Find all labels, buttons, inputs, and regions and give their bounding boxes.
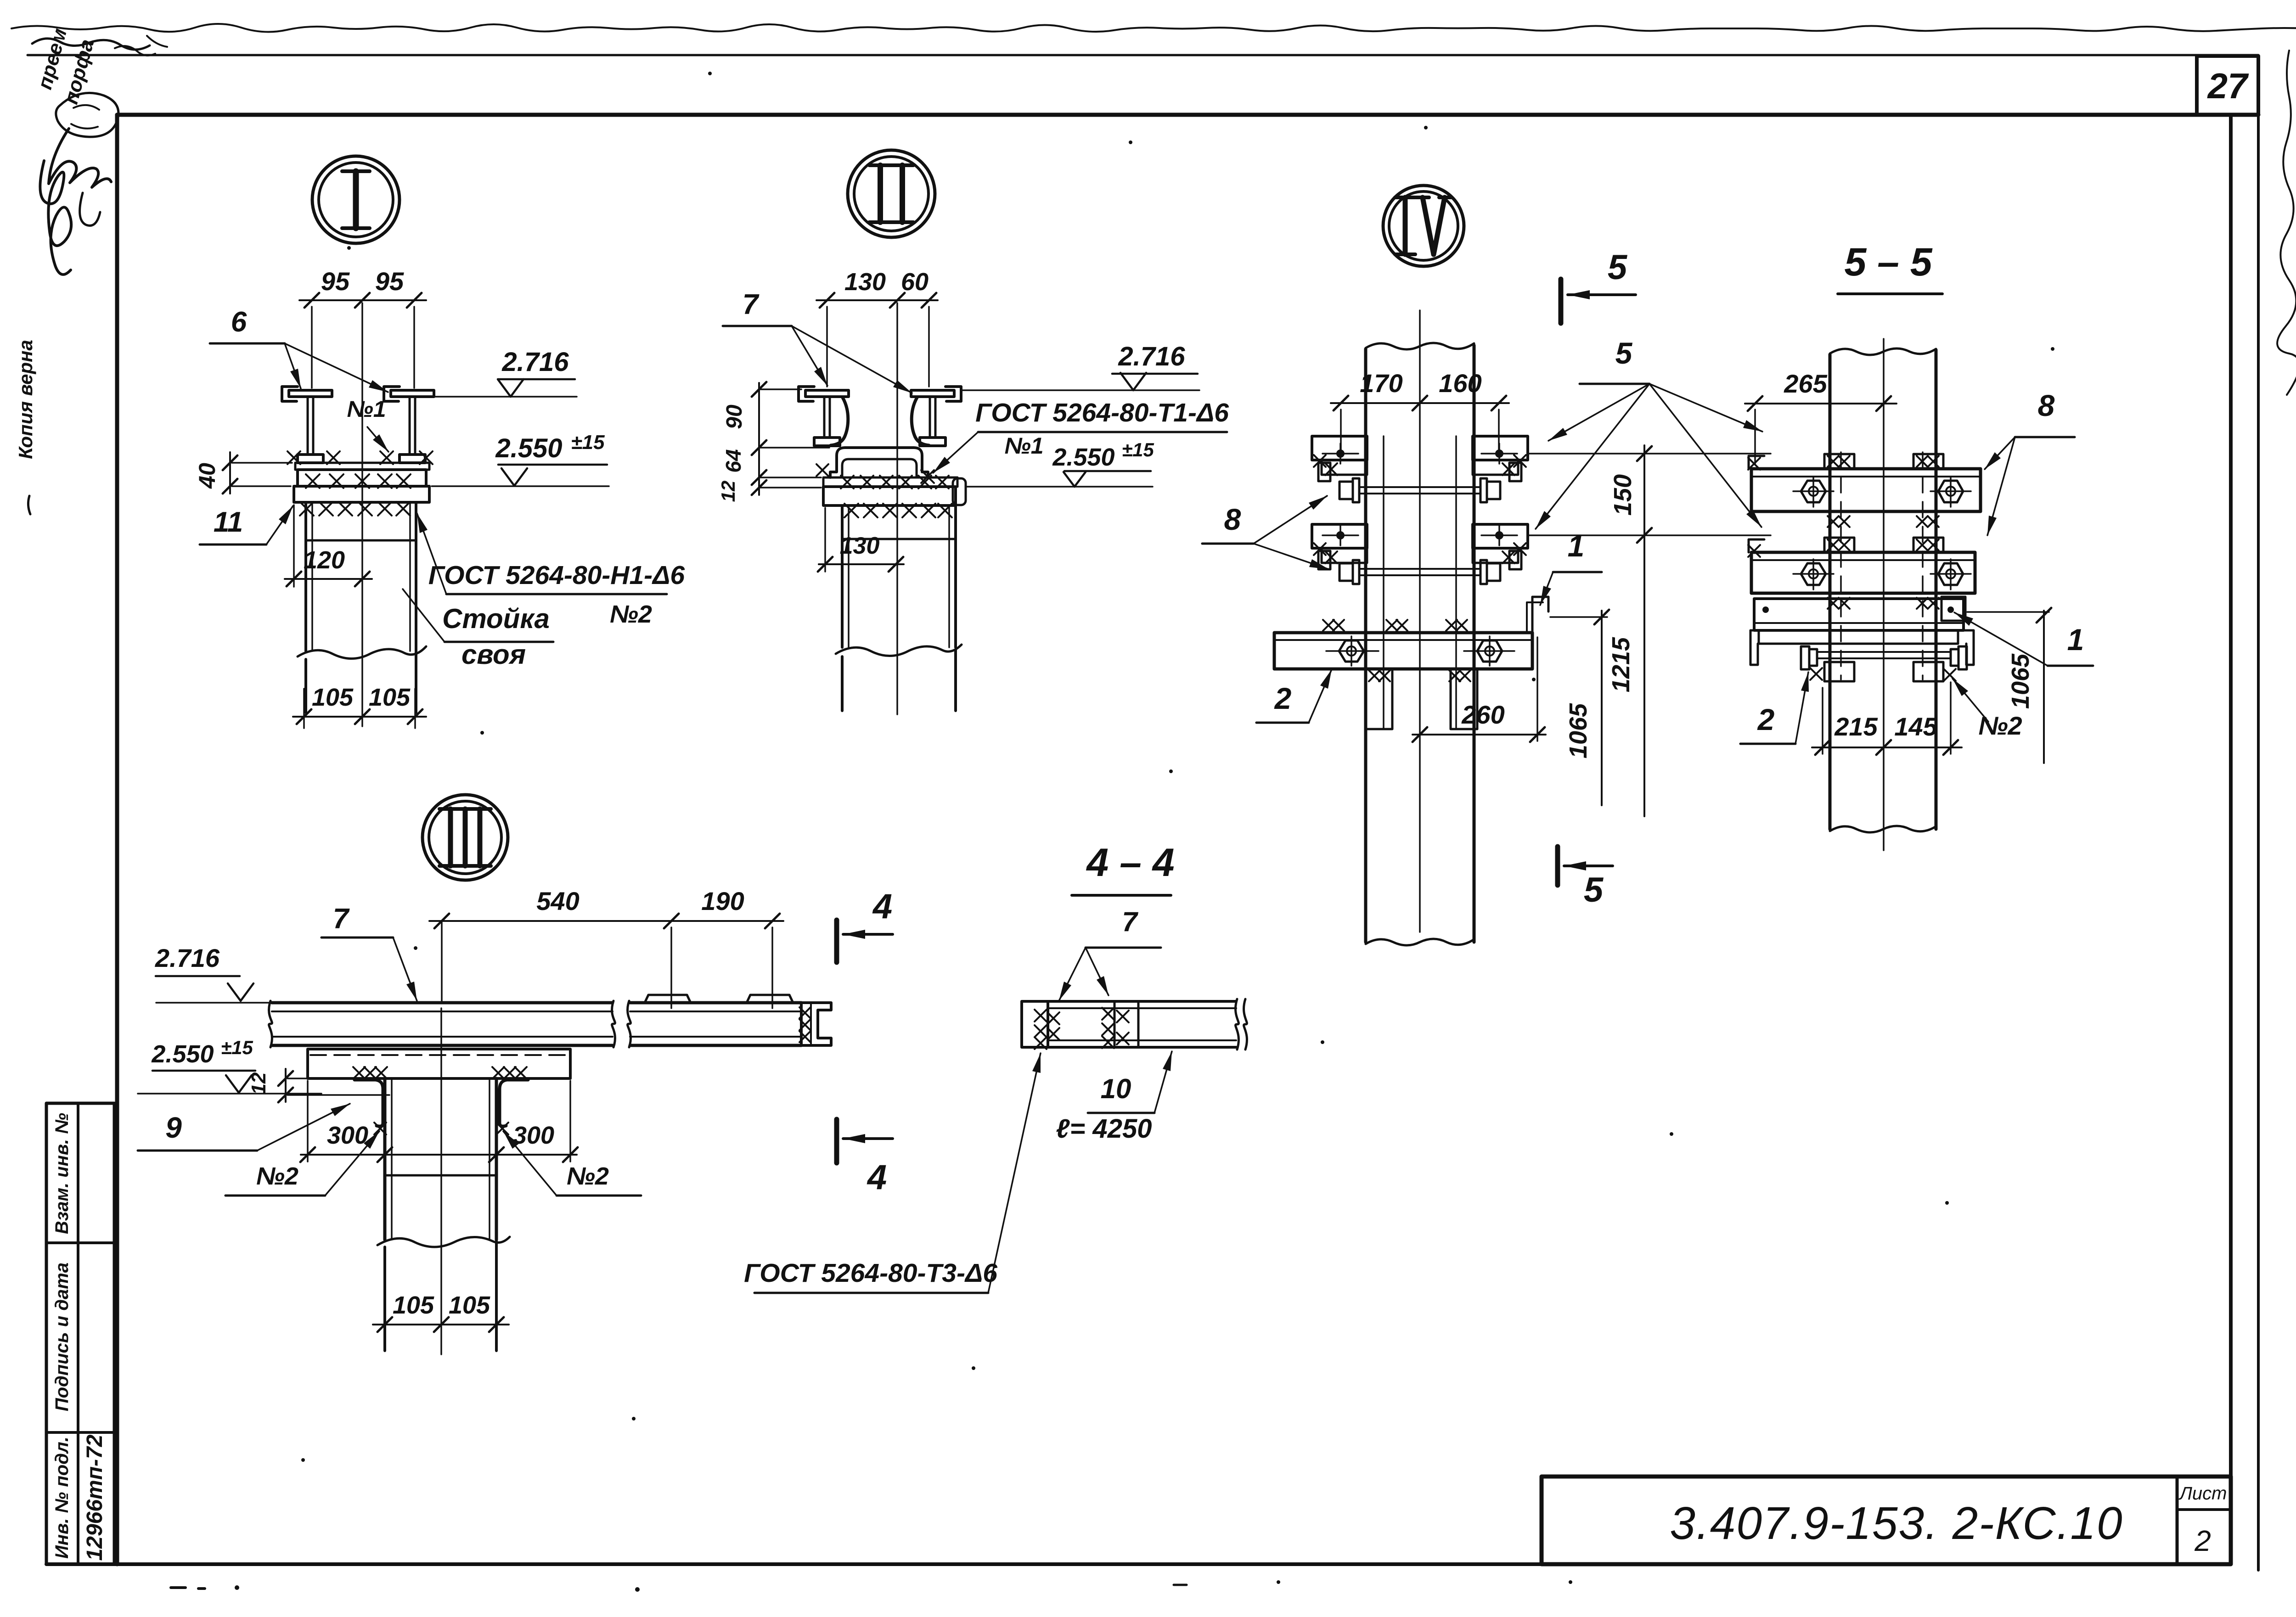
view III beam piece 2 (630, 1001, 801, 1005)
view I dim extension right (413, 307, 415, 388)
view III beam piece 1 left break (269, 1001, 272, 1047)
svg-text:4 – 4: 4 – 4 (1086, 841, 1174, 885)
svg-text:№2: №2 (1978, 711, 2022, 740)
view III dim 105+105 (373, 1324, 509, 1325)
view III weld xxx left (353, 1067, 365, 1079)
frame right border outer (2257, 115, 2260, 1570)
view II column lower edges (841, 657, 844, 711)
weld xx below bar (1828, 516, 1839, 527)
view III beam piece 1 right break (612, 1001, 615, 1047)
view I thin plate (295, 463, 429, 470)
section 4-4 beam inner lines (1048, 1007, 1236, 1009)
svg-text:64: 64 (721, 449, 745, 472)
view IV column left edge (1364, 349, 1367, 942)
view IV dim 150 and 1215 line (1643, 445, 1645, 816)
view II weld x-row under plate (844, 504, 858, 517)
title block list cell split (2177, 1508, 2231, 1511)
view III beam piece 2 left break (628, 1001, 631, 1047)
view III cap plate hidden line (310, 1054, 568, 1056)
svg-text:Инв. № подл.: Инв. № подл. (52, 1437, 72, 1559)
view III weld xxx right (492, 1067, 504, 1079)
view II main plate (823, 487, 956, 505)
section 5-5 end bracket (1941, 597, 1965, 621)
section 5-5 bottom tabs (1824, 662, 1854, 681)
clamp hook plate (1318, 463, 1330, 481)
view III column break wavy (377, 1237, 510, 1247)
section 4-4 weld xs at left joint (1035, 1010, 1047, 1022)
view II column joint line (842, 538, 956, 540)
svg-text:№1: №1 (347, 396, 386, 422)
view II plate end tab (953, 478, 966, 505)
svg-text:2.550: 2.550 (151, 1040, 214, 1068)
view I weld x-row on plate A (306, 474, 320, 488)
svg-text:2.550: 2.550 (495, 433, 562, 463)
view II centerline (896, 303, 898, 714)
clamp weld xs (1314, 543, 1326, 555)
view III left clip angle (355, 1080, 383, 1126)
clamp bar end clip (1749, 456, 1764, 469)
view I column lower right edge (415, 652, 417, 713)
svg-text:260: 260 (1461, 700, 1504, 729)
section 5-5 column bottom wavy (1830, 826, 1936, 832)
svg-text:1065: 1065 (2007, 653, 2034, 709)
view IV column top wavy (1366, 343, 1474, 349)
svg-text:2.550: 2.550 (1052, 444, 1114, 471)
rail web (409, 397, 411, 455)
svg-text:2.716: 2.716 (501, 347, 569, 377)
svg-text:Копия верна: Копия верна (15, 340, 36, 459)
section 5-5 centerline (1883, 339, 1885, 850)
section mark 5 top (1559, 279, 1564, 323)
svg-text:27: 27 (2207, 66, 2249, 106)
svg-text:40: 40 (194, 463, 220, 489)
view IV level extension lines (1529, 453, 1771, 455)
svg-text:120: 120 (304, 546, 345, 574)
svg-text:1: 1 (2067, 623, 2084, 657)
margin ink patches near top (32, 39, 150, 50)
view I dim 40 extensions (232, 462, 292, 464)
section 5-5 dim 215+145 (1812, 747, 1962, 748)
svg-text:170: 170 (1360, 369, 1402, 398)
stamp divider 1 (46, 1241, 114, 1244)
svg-text:95: 95 (375, 267, 404, 296)
view I column inner right (409, 502, 411, 651)
view II column right edge (954, 505, 957, 647)
svg-text:№1: №1 (1004, 433, 1043, 459)
svg-text:Стойка: Стойка (442, 603, 550, 634)
section 5-5 dim 265 (1745, 403, 1896, 404)
weld xx below bar (1828, 598, 1839, 609)
view II circle label (848, 150, 935, 237)
svg-text:7: 7 (743, 289, 760, 320)
tie bolt head (1487, 482, 1500, 499)
clamp bar (1751, 469, 1981, 511)
clamp bar (1751, 552, 1975, 593)
section 5-5 right hook (1958, 630, 1974, 665)
section 5-5 weld xs bottom (1810, 668, 1822, 680)
clamp block (1312, 436, 1367, 460)
section 5-5 weld x marks at bar left ends (1748, 458, 1760, 470)
view II dim 130 extension (824, 508, 826, 572)
svg-text:8: 8 (2038, 388, 2055, 422)
view II column break wavy (836, 645, 962, 656)
svg-text:215: 215 (1834, 712, 1878, 741)
view II dim extensions (826, 307, 828, 387)
svg-text:7: 7 (333, 903, 350, 935)
view II left dim extensions (759, 388, 801, 390)
svg-text:3.407.9-153. 2-КС.10: 3.407.9-153. 2-КС.10 (1670, 1498, 2123, 1549)
section 5-5 beam strip element 1 (1754, 599, 1964, 630)
svg-text:8: 8 (1224, 502, 1241, 536)
margin signature flourish (49, 129, 111, 187)
view III dim 300+300 (301, 1154, 577, 1156)
view I plate A (298, 470, 426, 486)
view I plate B wide (294, 486, 429, 502)
rail clip lip (384, 387, 400, 401)
view IV lower cheek plate left (1366, 669, 1392, 729)
view IV lower cheek plate right (1451, 669, 1477, 729)
svg-text:№2: №2 (567, 1162, 609, 1190)
view I column right edge (415, 502, 417, 651)
tie bolt head (1339, 563, 1353, 581)
view II weld x-row on plate (841, 476, 854, 488)
rail bottom flange (814, 438, 840, 446)
stamp column outer box (46, 1103, 114, 1564)
sheet number box 27 (2197, 56, 2258, 115)
clamp bolt (1336, 449, 1345, 458)
svg-text:2: 2 (1757, 702, 1775, 736)
view IV clamp cheek plate edges (1383, 436, 1384, 729)
view III rail pad tab 2 (747, 995, 793, 1003)
view I dim 105+105 line (293, 716, 426, 718)
view I circle label (312, 156, 400, 243)
svg-text:2.716: 2.716 (155, 943, 220, 972)
svg-text:5: 5 (1584, 870, 1604, 910)
rail web (823, 397, 826, 438)
clamp block step (1473, 548, 1518, 563)
tie bolt shank (1361, 486, 1479, 488)
view II column left edge (841, 505, 844, 647)
view IV weld xx above beam (1323, 620, 1334, 631)
rail clip curl (831, 398, 848, 445)
rail bottom flange (400, 455, 425, 463)
svg-text:1215: 1215 (1607, 637, 1635, 692)
rail clip lip (945, 387, 961, 401)
svg-text:ГОСТ 5264-80-Т1-Δ6: ГОСТ 5264-80-Т1-Δ6 (975, 398, 1229, 427)
view III beam piece 1 (272, 1001, 613, 1005)
section 5-5 lower plate (1759, 630, 1958, 644)
tie bolt head (1339, 482, 1353, 499)
view IV bent stop element 1 (1532, 597, 1548, 633)
section 5-5 bottom tie bolt (1817, 651, 1951, 653)
stamp divider 2 (46, 1431, 114, 1434)
svg-text:2.716: 2.716 (1118, 342, 1185, 371)
view IV column right edge (1473, 345, 1476, 942)
svg-text:190: 190 (701, 887, 744, 915)
view III cap plate (308, 1049, 570, 1078)
clamp block (1473, 436, 1528, 460)
rail clip lip (282, 387, 298, 401)
weld tabs on bar (1824, 538, 1854, 552)
view II thin plate (823, 477, 957, 487)
view I dim 120 line (285, 578, 372, 580)
view III clip weld x left (374, 1123, 386, 1134)
rail clip lip (799, 387, 814, 401)
view III dim 540+190 line (429, 920, 783, 922)
view I column left edge (304, 502, 307, 651)
svg-text:160: 160 (1439, 369, 1481, 398)
svg-text:105: 105 (369, 684, 411, 711)
svg-text:150: 150 (1609, 474, 1637, 516)
rail web (307, 397, 309, 455)
svg-text:145: 145 (1894, 712, 1937, 741)
section 5-5 column right edge (1935, 350, 1938, 829)
frame left border (115, 115, 119, 1564)
tie bolt head (1487, 563, 1500, 581)
svg-text:5: 5 (1615, 336, 1633, 370)
svg-text:1: 1 (1568, 529, 1585, 563)
section 5-5 column left edge (1829, 354, 1832, 829)
svg-text:Лист: Лист (2178, 1483, 2227, 1504)
view I dim 95+95 line (299, 299, 426, 301)
svg-text:10: 10 (1101, 1073, 1131, 1104)
svg-text:12966тп-72: 12966тп-72 (83, 1434, 107, 1561)
section 5-5 left hook (1750, 630, 1766, 665)
svg-text:4: 4 (872, 887, 892, 926)
margin stamp smudge (56, 93, 118, 137)
view IV roman numeral IV (1403, 197, 1408, 254)
section 4-4 joint line 1 (1114, 1001, 1116, 1047)
svg-text:105: 105 (393, 1291, 434, 1319)
svg-text:105: 105 (449, 1291, 490, 1319)
section 4-4 weld xs at right joint (1102, 1008, 1114, 1020)
svg-text:ГОСТ 5264-80-Т3-Δ6: ГОСТ 5264-80-Т3-Δ6 (744, 1258, 997, 1288)
svg-text:ГОСТ 5264-80-Н1-Δ6: ГОСТ 5264-80-Н1-Δ6 (428, 561, 685, 590)
svg-text:2: 2 (2194, 1524, 2211, 1557)
svg-text:№2: №2 (256, 1162, 298, 1190)
torn paper right edge (2277, 51, 2296, 395)
view II roman numeral II (878, 165, 883, 222)
svg-text:6: 6 (231, 306, 247, 338)
view I weld x-row under plate B (300, 502, 314, 516)
view III beam end plate (800, 1003, 803, 1045)
svg-text:7: 7 (1122, 906, 1138, 937)
clamp bar hex bolts (1801, 563, 1826, 585)
clamp bolt (1336, 531, 1345, 539)
section 4-4 joint line 2 (1137, 1001, 1140, 1047)
scan specks (708, 72, 712, 75)
view II weld x at plate left end (816, 464, 828, 476)
clamp block step (1473, 460, 1518, 475)
view IV dim 170+160 (1331, 402, 1509, 404)
rail top flange (289, 390, 332, 397)
view IV dim 260 (1412, 734, 1546, 736)
view III clip weld x right (496, 1123, 508, 1134)
view II dim 130 inner line (819, 563, 904, 565)
frame right border inner (2229, 115, 2233, 1564)
clamp bolt (1495, 449, 1503, 458)
svg-text:5 – 5: 5 – 5 (1844, 240, 1932, 284)
section mark 4 top (834, 920, 839, 962)
view I centerline (361, 303, 363, 726)
view IV beam bolt right (1477, 640, 1502, 662)
view III column joint line (385, 1174, 496, 1177)
section 5-5 column top wavy (1830, 348, 1936, 355)
svg-text:5: 5 (1608, 248, 1628, 287)
view IV beam element 2 (1274, 633, 1532, 669)
rail top flange (911, 390, 954, 397)
view IV circle label (1383, 185, 1464, 266)
svg-text:90: 90 (722, 404, 747, 429)
view I column lower left edge (304, 659, 307, 713)
view I dim 40 vertical (229, 452, 231, 494)
view III dim extensions (441, 921, 443, 1001)
svg-text:12: 12 (248, 1072, 270, 1095)
view II left dim stack 90 64 12 (758, 383, 760, 495)
section 5-5 dim 1065 (2043, 611, 2045, 763)
clamp block (1312, 524, 1367, 548)
rail bottom flange (298, 455, 323, 463)
stamp column divider vertical (77, 1103, 79, 1564)
svg-text:Взам. инв. №: Взам. инв. № (52, 1113, 72, 1234)
svg-text:2: 2 (1274, 681, 1292, 715)
svg-text:12: 12 (717, 481, 739, 502)
view III dim 12 (285, 1069, 287, 1102)
rail bottom flange (920, 438, 945, 446)
svg-text:9: 9 (165, 1111, 182, 1144)
view IV dim 1065 line (1601, 611, 1603, 805)
svg-text:130: 130 (844, 268, 886, 296)
section 4-4 beam bottom edge (1048, 1046, 1236, 1049)
clamp bar end clip (1749, 539, 1764, 552)
torn paper top edge (11, 24, 2296, 32)
clamp hook plate (1509, 463, 1521, 481)
frame bottom border (46, 1562, 2231, 1566)
svg-text:±15: ±15 (571, 431, 605, 454)
clamp weld xs (1314, 455, 1326, 467)
svg-text:300: 300 (513, 1122, 554, 1149)
view I dim ticks (304, 293, 319, 308)
view III roman numeral III (448, 809, 453, 866)
svg-text:540: 540 (536, 887, 579, 915)
title block box (1542, 1477, 2231, 1564)
svg-text:±15: ±15 (221, 1037, 253, 1058)
view III column lower edges (383, 1247, 386, 1351)
top band line (28, 54, 2258, 56)
weld tabs on bar (1824, 454, 1854, 469)
svg-text:105: 105 (312, 684, 354, 711)
clamp block (1473, 524, 1528, 548)
section mark 4 bottom (834, 1119, 839, 1163)
svg-text:265: 265 (1784, 369, 1827, 398)
svg-text:130: 130 (840, 533, 880, 559)
view I column break wavy (298, 646, 426, 659)
view I weld x-marks under rails (287, 451, 300, 464)
view II channel hat section (830, 448, 928, 477)
svg-text:№2: №2 (610, 601, 652, 628)
tie bolt shank (1361, 568, 1479, 570)
view I dim 105 extensions (303, 689, 305, 728)
view III right clip angle (500, 1080, 528, 1126)
margin mark bottom (28, 496, 30, 514)
svg-text:Подпись и дата: Подпись и дата (52, 1263, 72, 1411)
view III rail pad tab 1 (645, 995, 691, 1003)
svg-text:60: 60 (901, 268, 929, 296)
view III beam end weld xs (799, 1007, 810, 1018)
svg-text:1065: 1065 (1564, 703, 1592, 758)
svg-text:ℓ= 4250: ℓ= 4250 (1056, 1114, 1152, 1144)
clamp weld xs (1514, 543, 1526, 555)
rail top flange (805, 390, 849, 397)
clamp hook plate (1318, 551, 1330, 569)
marks below bottom frame (171, 1586, 186, 1589)
view I dim 120 extension (293, 505, 295, 587)
view I column joint line (306, 539, 416, 542)
rail web (929, 397, 931, 438)
view III circle label (422, 795, 508, 880)
rail top flange (391, 390, 434, 397)
svg-text:300: 300 (327, 1122, 368, 1149)
section mark 5 bottom (1555, 847, 1560, 885)
section 4-4 splice left block (1022, 1001, 1048, 1047)
section 5-5 hidden cheek lines (1840, 452, 1842, 679)
clamp hook plate (1509, 551, 1521, 569)
view IV column bottom wavy (1366, 939, 1474, 945)
section 4-4 beam top edge (1048, 1000, 1236, 1003)
clamp block step (1322, 460, 1367, 475)
view IV weld xx below beam (1369, 670, 1380, 681)
view I dim extension left (311, 307, 313, 388)
clamp block step (1322, 548, 1367, 563)
clamp weld xs (1514, 455, 1526, 467)
svg-text:11: 11 (214, 506, 243, 538)
rail clip curl (912, 398, 929, 445)
clamp bolt (1495, 531, 1503, 539)
view IV beam bolt left (1339, 640, 1364, 662)
view III column edges (383, 1078, 387, 1240)
svg-text:95: 95 (321, 267, 350, 296)
frame top border (117, 113, 2258, 117)
view I column inner left (311, 502, 313, 651)
svg-text:±15: ±15 (1122, 439, 1154, 460)
view II column inner lines (848, 505, 850, 647)
svg-text:4: 4 (867, 1158, 887, 1197)
svg-text:своя: своя (461, 639, 526, 670)
title block list cell divider (2176, 1477, 2179, 1564)
view IV centerline (1419, 310, 1421, 932)
clamp bar hex bolts (1801, 481, 1826, 502)
section 4-4 right break (1236, 999, 1239, 1050)
view I roman numeral I (353, 171, 359, 228)
view II dim 130+60 line (816, 299, 938, 301)
